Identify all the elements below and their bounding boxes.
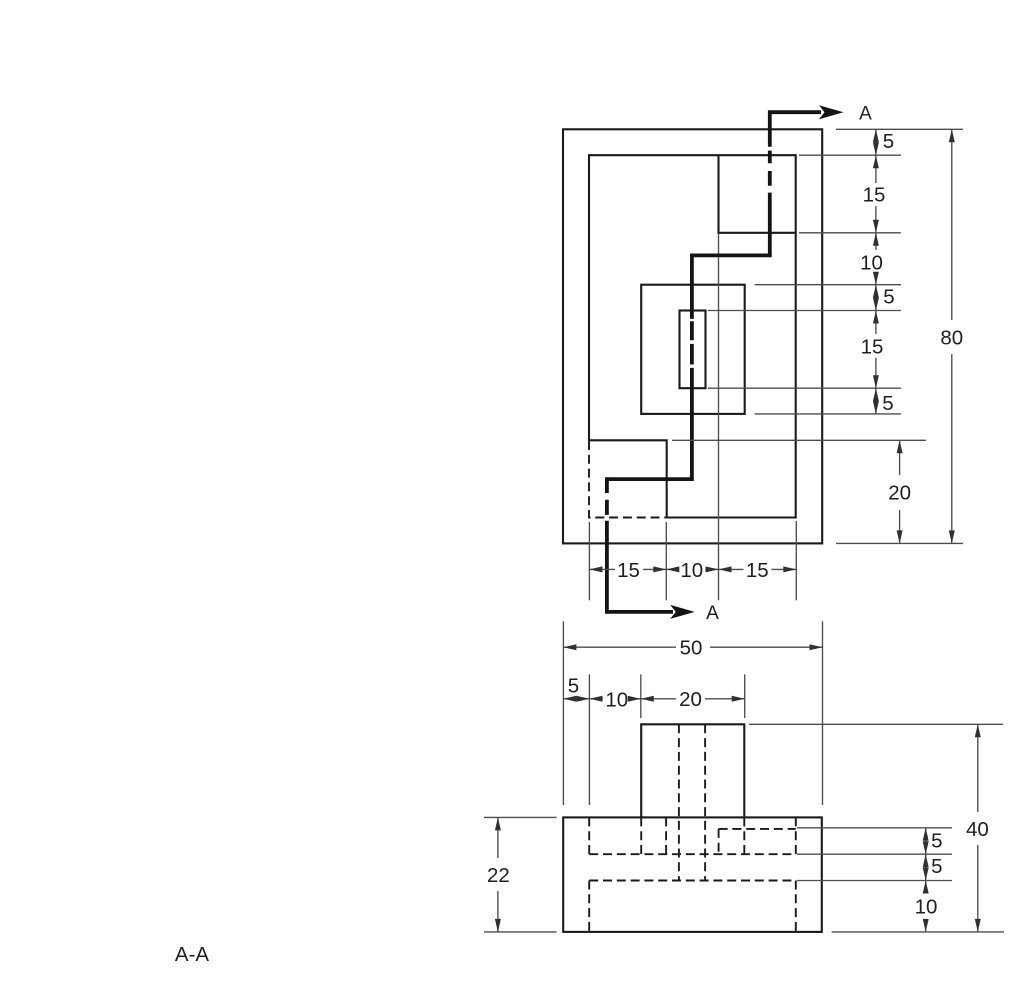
svg-text:40: 40 (966, 818, 989, 841)
svg-text:15: 15 (617, 559, 640, 582)
svg-text:5: 5 (931, 830, 942, 853)
extension line y=724.3 (boss top) (749, 723, 1003, 725)
svg-text:15: 15 (863, 184, 886, 207)
svg-text:5: 5 (568, 675, 579, 698)
front view hidden line x=666.1 (665, 817, 667, 854)
extension line y=817.4 left (484, 816, 557, 818)
extension line x=666.3 below top view (665, 522, 667, 600)
extension line y=440.3 (672, 439, 926, 441)
svg-text:10: 10 (915, 896, 938, 919)
top view: hidden edge of lower-left step (dashed) (589, 441, 667, 518)
extension line y=388.2 (708, 387, 901, 389)
top view: top-right notch edges (719, 155, 796, 233)
front view hidden line x=795.8 lower (795, 881, 797, 932)
cutting plane line A-A: top horizontal arm with arrow (770, 110, 821, 114)
svg-text:A: A (706, 603, 719, 624)
extension line x=640.8 above front view (640, 674, 642, 718)
chain dimension line y=569.4 with gaps for 15/10/15 (589, 568, 796, 570)
svg-text:15: 15 (861, 336, 884, 359)
extension line y=880.5 (797, 880, 952, 882)
svg-text:22: 22 (487, 864, 510, 887)
front view: boss 20 wide on top (641, 724, 744, 817)
svg-text:15: 15 (746, 559, 769, 582)
svg-text:10: 10 (605, 689, 628, 712)
chain dimension line x=925.7 (5/5/10) (925, 828, 927, 932)
front view hidden line x=589.2 upper (588, 817, 590, 854)
svg-text:50: 50 (680, 637, 703, 660)
dimension 80: line x=951.8 (951, 129, 953, 543)
cutting plane line: vertical segment at x=770 (solid+dashes) (768, 110, 772, 255)
top view: projection line from notch edge x=718.5 (718, 234, 720, 601)
cutting plane line: vertical segment at x=692 (solid+dashes) (690, 254, 694, 480)
top view: inner pocket outline (L-shape) (589, 155, 796, 517)
top view: middle pocket rectangle 20x25 (641, 285, 745, 414)
chain arrows (873, 129, 879, 142)
extension line y=310.5 (708, 310, 901, 312)
extension line y=854.2 (797, 853, 952, 855)
dimension 22: line x=497.9 (497, 817, 499, 932)
front view: base block 50x22 (563, 817, 822, 932)
svg-text:5: 5 (931, 855, 942, 878)
dimension 20: line x=899.6 (899, 440, 901, 543)
extension line x=796.3 below top view (795, 521, 797, 600)
front view hidden line x=641.2 (640, 817, 642, 854)
svg-text:80: 80 (940, 327, 963, 350)
cutting plane line: jog at y=479 (607, 477, 694, 481)
extension line y=413.9 (755, 413, 902, 415)
dimension 50: line y=647.2 (563, 646, 822, 648)
front view hidden line x=795.8 upper (795, 817, 797, 854)
front view hidden line x=589.2 lower (588, 881, 590, 932)
front view hidden line x=678.9 (slot wall) (678, 724, 680, 880)
extension line x=744.7 above front view (744, 674, 746, 718)
front view hidden line y=828.9 (719, 828, 796, 830)
svg-text:A-A: A-A (175, 943, 210, 966)
extension line y=931.9 left (484, 931, 557, 933)
svg-text:10: 10 (680, 559, 703, 582)
extension line y=284.7 (755, 284, 902, 286)
svg-text:20: 20 (888, 482, 911, 505)
extension line x=589.4 above front view (588, 674, 590, 805)
svg-text:A: A (859, 104, 872, 125)
extension line y=543.4 (bottom edge) (836, 542, 963, 544)
front view hidden line x=705.1 (slot wall) (704, 724, 706, 880)
extension line x=563.4 between views (562, 621, 564, 805)
extension line y=155.2 (799, 154, 901, 156)
extension line y=129.3 (top edge) (836, 128, 963, 130)
extension line x=822.5 between views (822, 621, 824, 805)
svg-text:5: 5 (882, 392, 893, 415)
top view: small slot rectangle 5x15 (680, 311, 706, 389)
svg-text:20: 20 (679, 688, 702, 711)
extension line x=589.4 below top view (588, 522, 590, 600)
front view hidden line x=718.6 (718, 829, 720, 854)
cutting plane line: vertical segment at x=607 (solid+dashes) (605, 477, 609, 612)
extension line y=931.9 right (832, 931, 1004, 933)
extension line y=827.8 (797, 827, 952, 829)
chain dimension line x=875.9 with gaps for 15/10/15 text (875, 129, 877, 414)
cutting plane line: jog at y=255 (692, 253, 772, 257)
front view hidden line y=880.5 (589, 880, 796, 882)
svg-text:5: 5 (883, 130, 894, 153)
dimension line 5/10/20 y=698.8 (563, 698, 744, 700)
dimension 40: line x=977.8 (977, 724, 979, 932)
top view: outer outline of 50x80 plate (563, 129, 822, 543)
front view hidden line x=744.3 (743, 817, 745, 854)
extension line y=232.8 (799, 232, 901, 234)
cutting plane line: bottom horizontal arm with arrow (605, 610, 673, 614)
svg-text:10: 10 (860, 252, 883, 275)
svg-text:5: 5 (883, 286, 894, 309)
front view hidden line y=854.2 (589, 853, 796, 855)
